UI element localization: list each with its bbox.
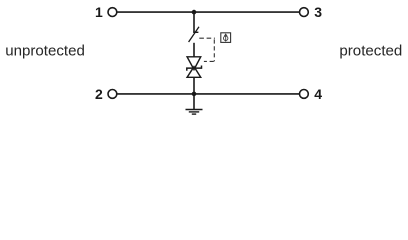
svg-text:3: 3 bbox=[314, 4, 322, 20]
suppressor diode upper triangle bbox=[187, 57, 201, 70]
dashed linkage vertical bbox=[213, 39, 215, 61]
terminal 2 circle bbox=[108, 90, 117, 99]
dashed linkage horizontal to indicator bbox=[199, 37, 215, 39]
terminal 1 circle bbox=[108, 8, 117, 17]
svg-text:2: 2 bbox=[95, 86, 103, 102]
wire vertical upper segment bbox=[193, 12, 195, 32]
status indicator arrow head bbox=[224, 34, 227, 36]
wire bottom rail 2-4 bbox=[117, 93, 299, 95]
dashed linkage horizontal to diode bbox=[204, 60, 214, 62]
thermal disconnect contact foot bbox=[193, 31, 198, 33]
wire vertical lower segment bbox=[193, 77, 195, 94]
suppressor diode lower triangle bbox=[187, 67, 201, 78]
terminal 4 circle bbox=[300, 90, 309, 99]
svg-text:4: 4 bbox=[314, 86, 322, 102]
ground bar 2 bbox=[189, 111, 199, 113]
wire to ground bbox=[193, 94, 195, 109]
wire vertical middle segment bbox=[193, 43, 195, 57]
status indicator circle bbox=[224, 36, 228, 40]
terminal 3 circle bbox=[300, 8, 309, 17]
node junction top bbox=[192, 10, 197, 15]
suppressor diode zener bar bbox=[187, 66, 202, 71]
ground bar 1 bbox=[186, 109, 203, 111]
svg-text:unprotected: unprotected bbox=[5, 42, 85, 59]
status indicator box bbox=[221, 33, 231, 43]
status indicator arrow shaft bbox=[225, 34, 227, 42]
node junction bottom bbox=[192, 92, 197, 97]
svg-text:protected: protected bbox=[339, 42, 402, 59]
wire top rail 1-3 bbox=[117, 11, 299, 13]
ground bar 3 bbox=[192, 113, 196, 115]
thermal disconnect blade bbox=[189, 27, 199, 42]
svg-text:1: 1 bbox=[95, 4, 103, 20]
